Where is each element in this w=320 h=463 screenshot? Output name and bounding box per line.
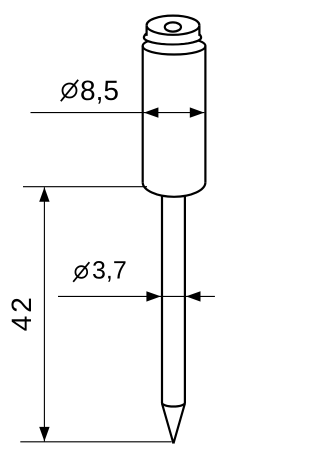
cone right side bbox=[173, 404, 184, 444]
cap flange ring bbox=[144, 33, 201, 44]
probe body cylinder (silhouette fill) bbox=[143, 38, 206, 197]
cone base arc bbox=[162, 403, 185, 407]
dim 42 top extension line bbox=[23, 186, 147, 188]
dim 42 top arrow bbox=[39, 187, 49, 202]
svg-text:3,7: 3,7 bbox=[92, 257, 127, 285]
shaft left wall bbox=[161, 196, 163, 403]
dim 8,5 left arrow bbox=[144, 107, 159, 117]
svg-text:42: 42 bbox=[6, 294, 37, 331]
dim 3,7 left arrow bbox=[146, 291, 161, 301]
dim 8,5 right arrow bbox=[190, 107, 205, 117]
dim 3,7 right arrow bbox=[186, 291, 201, 301]
dia symbol 8,5 bbox=[63, 84, 77, 98]
dia symbol 3,7 bbox=[75, 266, 87, 278]
dim 42 bottom arrow bbox=[39, 427, 49, 442]
dim 3,7 leader line bbox=[58, 295, 215, 297]
dim 42 bottom extension line bbox=[20, 441, 171, 443]
svg-text:8,5: 8,5 bbox=[80, 75, 119, 106]
dim 42 vertical line bbox=[43, 187, 45, 441]
cap disc silhouette (covers flange top and body rim behind) bbox=[147, 16, 200, 44]
body bottom arc bbox=[143, 182, 206, 197]
body left wall bbox=[142, 46, 144, 182]
cone left side bbox=[162, 404, 173, 444]
shaft right wall bbox=[184, 196, 186, 403]
cap top ellipse back arc bbox=[147, 16, 200, 26]
cap hole ellipse bbox=[165, 22, 181, 31]
body right wall bbox=[204, 46, 206, 182]
dim 8,5 leader line bbox=[31, 112, 205, 114]
body top rim ellipse bbox=[143, 38, 206, 55]
